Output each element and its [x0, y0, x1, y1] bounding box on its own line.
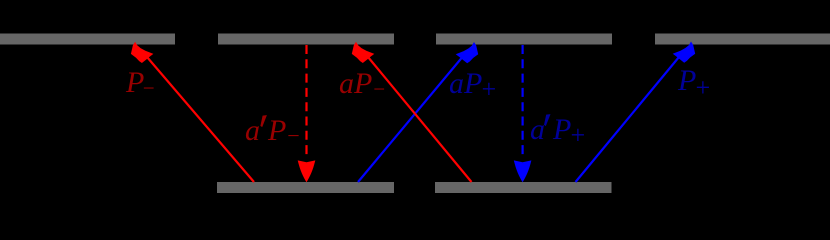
arrow aP+ (blue solid, up-right) — [358, 42, 478, 182]
level bar top-3 — [436, 34, 612, 45]
level bar bottom-1 — [217, 182, 394, 193]
level bar top-2 — [218, 34, 394, 45]
arrow P+ (blue solid, up-right) — [576, 42, 696, 183]
prime mark of a'P- — [260, 115, 267, 127]
level bar top-1 — [0, 34, 175, 45]
level bar bottom-2 — [435, 182, 612, 193]
arrow a'P- (red dashed, down) — [298, 45, 316, 182]
level bar top-4 — [655, 34, 830, 45]
prime mark of a'P+ — [544, 114, 551, 126]
arrow a'P+ (blue dashed, down) — [514, 45, 532, 182]
arrow aP- (red solid, up-left) — [352, 42, 472, 182]
arrow P- (red solid, up-left) — [131, 42, 254, 182]
